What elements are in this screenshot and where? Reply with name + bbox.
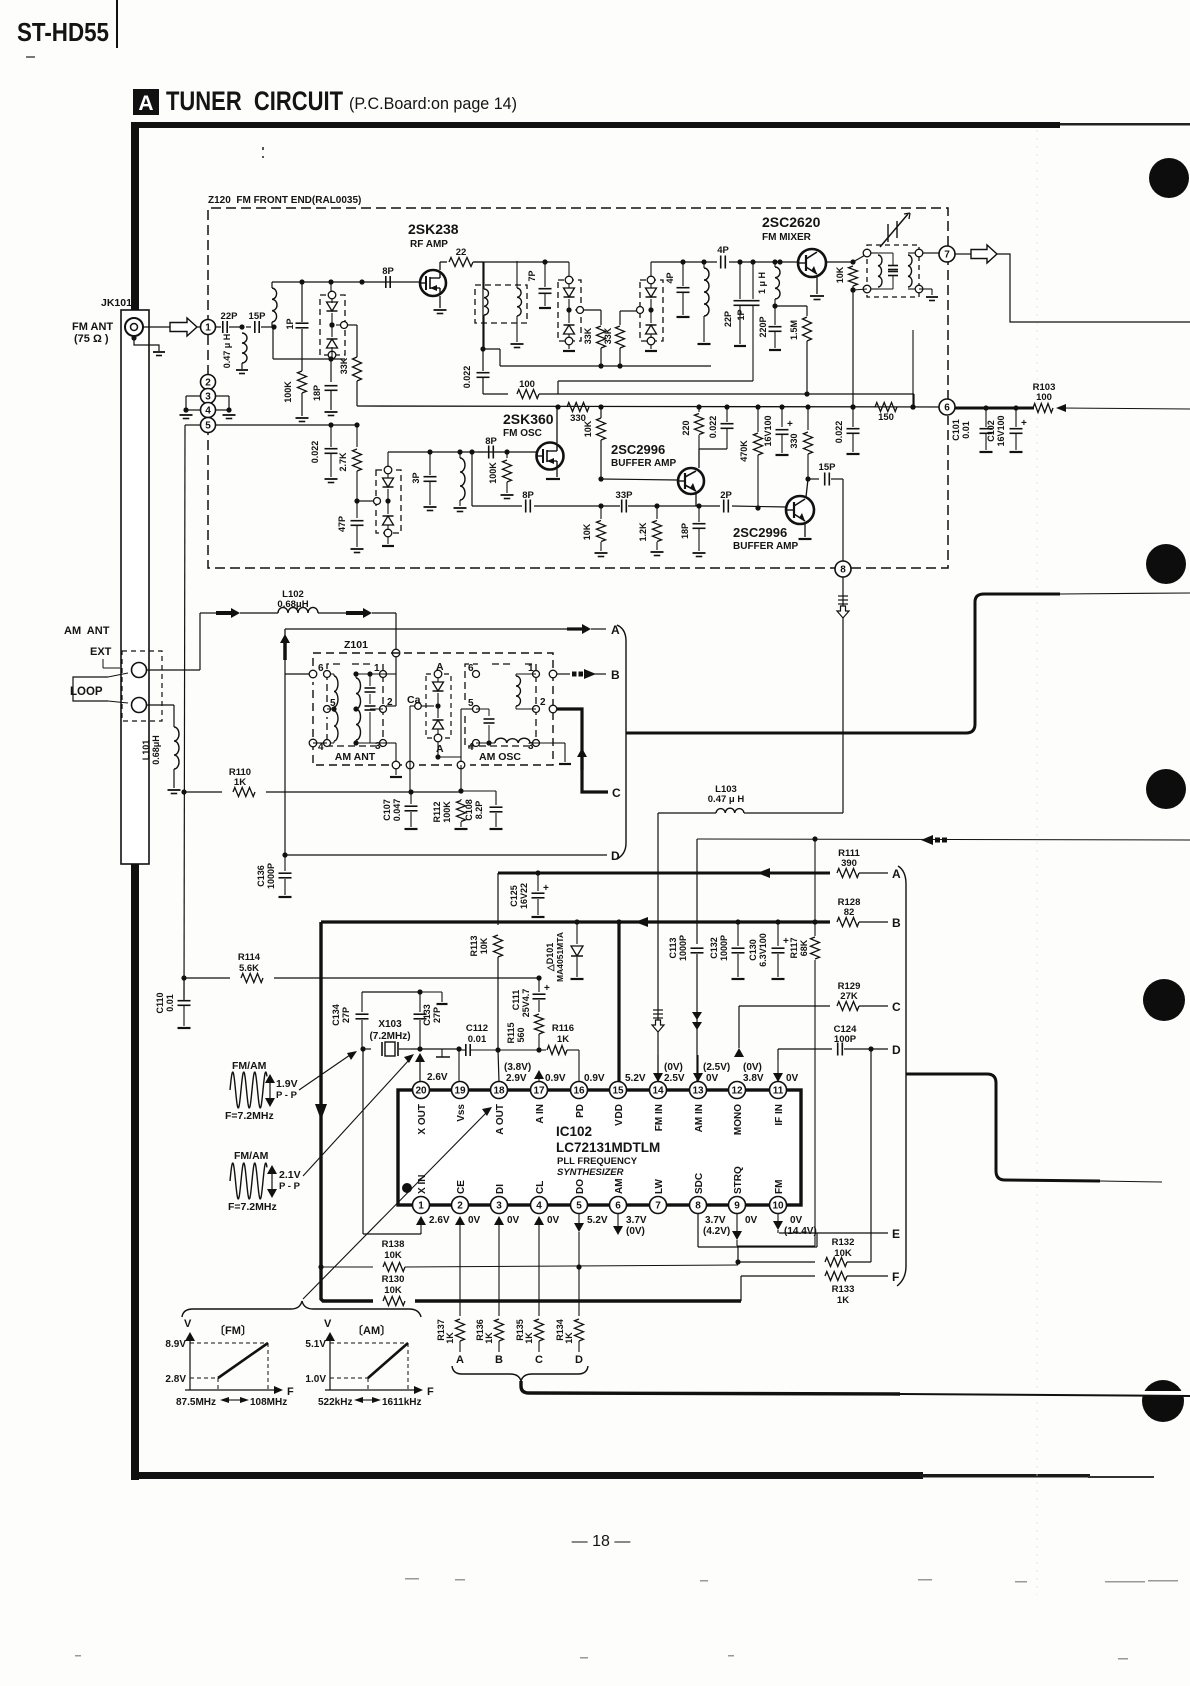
svg-text:FM MIXER: FM MIXER [762, 232, 812, 243]
crystal X103 [360, 1046, 365, 1051]
svg-text:F=7.2MHz: F=7.2MHz [225, 1110, 274, 1122]
svg-text:B: B [495, 1354, 503, 1366]
svg-text:F: F [287, 1386, 294, 1398]
varactor2 dashed box [558, 280, 581, 341]
svg-text:R117: R117 [789, 937, 799, 958]
resistor 470K [755, 404, 760, 409]
wire VDD thick [616, 919, 621, 924]
svg-text:1.5M: 1.5M [789, 320, 799, 340]
capacitor C113 1000P [691, 947, 704, 949]
varactor osc dashed box [376, 470, 401, 533]
capacitor 15P out [808, 478, 819, 480]
binding hole 5 [1142, 1380, 1184, 1422]
pin1 voltage [420, 1224, 422, 1232]
varactor tank1 tap [329, 322, 334, 327]
wire top tank2 [474, 261, 569, 263]
resistor R115 560 [535, 1014, 544, 1034]
ABCD brace [452, 1366, 588, 1381]
svg-text:L101: L101 [141, 740, 151, 761]
capacitor 2P [723, 500, 725, 513]
pin10 stub [777, 1213, 779, 1222]
svg-text:1 μ H: 1 μ H [757, 272, 767, 294]
wire AM line [697, 839, 1190, 840]
svg-text:0V: 0V [790, 1215, 803, 1226]
terminal 3 circle [201, 389, 216, 404]
svg-text:10: 10 [772, 1200, 784, 1211]
capacitor 8P line [525, 500, 527, 513]
capacitor 0.022 pin5 [328, 422, 333, 427]
wire AM OSC pin5 [460, 709, 462, 761]
transistor 2SK360 [537, 443, 564, 470]
svg-text:8P: 8P [485, 436, 497, 447]
wire 7 to right edge [997, 254, 1190, 322]
pin17 voltage [538, 1078, 540, 1082]
svg-text:4P: 4P [717, 245, 729, 256]
svg-text:15P: 15P [819, 462, 837, 473]
hatch arrow terminal8 [838, 595, 848, 597]
svg-text:+: + [543, 883, 549, 894]
wire R130 to F [740, 1276, 742, 1301]
svg-text:LW: LW [654, 1178, 665, 1194]
resistor R111 390 [830, 871, 890, 876]
LOOP bracket [73, 677, 108, 701]
A line arrow [567, 627, 583, 630]
wire 33Kb to varactor3 [620, 310, 636, 312]
svg-text:F: F [892, 1270, 899, 1284]
svg-text:10K: 10K [479, 937, 489, 954]
svg-text:108MHz: 108MHz [250, 1397, 287, 1408]
AM ANT pin circles [309, 670, 317, 678]
bus y394 corner to VT [804, 391, 809, 396]
svg-text:(0V): (0V) [626, 1226, 645, 1237]
wire jack to L102 [146, 669, 200, 671]
ground under 0.47uH [241, 363, 243, 369]
signal block arrow into pin1 [170, 318, 197, 336]
svg-text:33K: 33K [339, 357, 349, 374]
osc tank coil [457, 449, 462, 454]
capacitor C107 0.047 [408, 789, 413, 794]
svg-text:1000P: 1000P [678, 935, 688, 961]
svg-text:BUFFER AMP: BUFFER AMP [611, 458, 677, 469]
svg-text:MA4051MTA: MA4051MTA [555, 932, 565, 982]
svg-text:Z120 FM FRONT END(RAL0035): Z120 FM FRONT END(RAL0035) [208, 195, 361, 206]
waveform2 pp arrow [271, 1173, 273, 1181]
IC102 body [398, 1090, 801, 1205]
AM OSC windings [516, 676, 521, 706]
svg-text:C113: C113 [668, 937, 678, 958]
svg-text:20: 20 [415, 1085, 427, 1096]
transistor 2SC2620 [777, 259, 782, 264]
svg-text:R132: R132 [832, 1237, 855, 1248]
svg-text:25V4.7: 25V4.7 [521, 989, 531, 1018]
resistor R112 100K [457, 801, 466, 822]
resistor R114 5.6K [181, 975, 186, 980]
svg-text:V DD: V DD [614, 1104, 625, 1126]
ground left of terminals 3-4 [180, 414, 193, 416]
svg-text:A: A [436, 743, 444, 755]
svg-text:16V100: 16V100 [996, 415, 1006, 446]
wire line D pll [778, 1048, 832, 1050]
svg-text:8: 8 [840, 564, 846, 575]
wire left column x185 [184, 425, 185, 1001]
svg-text:150: 150 [878, 412, 894, 423]
capacitor C112 0.01 [465, 1044, 467, 1056]
svg-text:15: 15 [612, 1085, 624, 1096]
svg-text:FM OSC: FM OSC [503, 428, 542, 439]
terminal 4 circle [201, 403, 216, 418]
pin13 voltage [697, 1055, 699, 1074]
terminal 3-4 left wires [186, 395, 200, 397]
svg-text:EXT: EXT [90, 646, 112, 658]
svg-text:1K: 1K [484, 1332, 494, 1344]
AM bundle bracket [617, 625, 626, 859]
svg-text:0.47 μ H: 0.47 μ H [222, 334, 232, 369]
svg-text:(0V): (0V) [743, 1062, 762, 1073]
inductor L103 [658, 812, 716, 814]
svg-text:PLL FREQUENCY: PLL FREQUENCY [557, 1156, 638, 1167]
2SK238 drain wire [439, 262, 441, 270]
svg-text:1000P: 1000P [719, 935, 729, 961]
AM jack circle 1 [132, 663, 147, 678]
tank2 coil right [516, 261, 518, 288]
svg-text:5.2V: 5.2V [625, 1073, 646, 1084]
wire R132 stub [737, 1247, 739, 1262]
svg-text:R130: R130 [382, 1274, 405, 1285]
svg-text:C101: C101 [951, 419, 961, 441]
capacitor 18P buf [696, 503, 701, 508]
svg-text:5.6K: 5.6K [239, 963, 259, 974]
resistor 10K buf1 lower [598, 503, 603, 508]
svg-text:33K: 33K [603, 327, 613, 344]
AM graph F axis [325, 1389, 415, 1391]
node after 22P [239, 324, 244, 329]
capacitor 22P mixer [737, 259, 742, 264]
wire line C pll [739, 1005, 888, 1007]
svg-text:27P: 27P [432, 1007, 442, 1023]
svg-text:10K: 10K [384, 1285, 402, 1296]
IC102 pin1 mark [402, 1183, 412, 1193]
svg-text:F: F [427, 1386, 434, 1398]
AM OSC pin circles [473, 671, 480, 678]
connector JK101 body [121, 310, 149, 864]
svg-text:7P: 7P [527, 270, 537, 281]
svg-text:C133: C133 [422, 1004, 432, 1026]
resistor 100 [483, 393, 508, 395]
svg-text:CL: CL [535, 1181, 546, 1194]
ABCD bundle exit [521, 1381, 900, 1394]
section header A box [133, 89, 159, 115]
ground Z101 pin [395, 769, 397, 775]
svg-text:AM ANT: AM ANT [335, 751, 376, 763]
AM graph dashes [330, 1342, 408, 1344]
varactor2 diodes [568, 262, 570, 280]
capacitor 8P rf gate [385, 276, 387, 288]
C line arrow [580, 756, 583, 770]
pin11 voltage [777, 1049, 779, 1074]
svg-text:C136: C136 [256, 865, 266, 887]
svg-text:1K: 1K [564, 1332, 574, 1344]
svg-text:A: A [892, 867, 901, 881]
pin16 voltage [578, 1050, 580, 1082]
svg-text:(75 Ω ): (75 Ω ) [74, 333, 109, 345]
capacitor 3P [427, 449, 432, 454]
svg-text:C111: C111 [511, 990, 521, 1011]
svg-text:FM/AM: FM/AM [234, 1150, 269, 1162]
trimmer adjust symbol [887, 224, 889, 242]
waveform2 sine [230, 1163, 267, 1199]
svg-text:JK101: JK101 [101, 297, 132, 309]
svg-text:6: 6 [944, 402, 950, 413]
svg-text:522kHz: 522kHz [318, 1397, 352, 1408]
wire mixer secondary junction [850, 287, 855, 292]
IC102 top pins [413, 1082, 430, 1099]
svg-text:27P: 27P [341, 1007, 351, 1023]
svg-text:6.3V100: 6.3V100 [758, 933, 768, 967]
svg-text:(14.4V): (14.4V) [784, 1226, 817, 1237]
inductor 0.47uH [242, 333, 247, 363]
svg-text:2.5V: 2.5V [664, 1073, 685, 1084]
svg-text:0V: 0V [786, 1073, 799, 1084]
svg-text:17: 17 [533, 1085, 545, 1096]
svg-text:F=7.2MHz: F=7.2MHz [228, 1201, 277, 1213]
svg-text:— 18 —: — 18 — [572, 1533, 631, 1550]
svg-text:4: 4 [205, 405, 211, 416]
svg-text:2: 2 [387, 697, 393, 708]
capacitor C124 100P [837, 1043, 839, 1056]
Z101 dashed box [313, 653, 553, 765]
svg-text:13: 13 [692, 1085, 704, 1096]
svg-text:390: 390 [841, 858, 857, 869]
svg-text:7: 7 [944, 249, 950, 260]
svg-text:7: 7 [655, 1200, 661, 1211]
wire 10K to VT line [852, 290, 854, 407]
resistor 100K tank1 [301, 359, 303, 371]
crystal top wire [362, 991, 420, 993]
svg-text:33K: 33K [583, 327, 593, 344]
resistor 22 [449, 258, 473, 267]
svg-text:0.047: 0.047 [392, 799, 402, 822]
svg-text:V: V [184, 1318, 192, 1330]
svg-text:C: C [612, 786, 621, 800]
capacitor 8P osc gate [469, 449, 474, 454]
ground right of terminals 3-4 [223, 414, 236, 416]
wire X OUT stub [419, 1061, 421, 1082]
terminal 2 circle [201, 375, 216, 390]
resistor R137 1K [456, 1319, 465, 1341]
svg-text:1.9V: 1.9V [276, 1078, 298, 1090]
mixer collector wire [826, 261, 853, 263]
svg-text:5: 5 [576, 1200, 582, 1211]
svg-text:DO: DO [575, 1179, 586, 1194]
svg-text:87.5MHz: 87.5MHz [176, 1397, 216, 1408]
capacitor 7P [542, 259, 547, 264]
svg-text:IF IN: IF IN [774, 1104, 785, 1126]
inductor 1uH [772, 259, 777, 264]
svg-text:C132: C132 [709, 937, 719, 959]
svg-text:FM ANT: FM ANT [72, 321, 113, 333]
svg-text:8P: 8P [522, 490, 534, 501]
frame left border lower [131, 862, 139, 1480]
VT bus line [357, 406, 948, 407]
frame bottom border [133, 1472, 923, 1479]
svg-text:16V22: 16V22 [519, 883, 529, 909]
svg-text:0V: 0V [468, 1215, 481, 1226]
AM jack circle 2 [132, 698, 147, 713]
B line left arrow [635, 917, 648, 927]
svg-text:MONO: MONO [733, 1104, 744, 1135]
resistor R128 82 [830, 920, 890, 925]
mixer stage top wire [651, 261, 717, 263]
svg-text:D: D [611, 849, 620, 863]
svg-text:220: 220 [681, 420, 691, 435]
svg-text:(7.2MHz): (7.2MHz) [369, 1031, 410, 1042]
wire AM OSC pin4 stub [475, 743, 477, 746]
output block arrow after 7 [955, 253, 971, 255]
svg-text:16: 16 [573, 1085, 585, 1096]
svg-text:P - P: P - P [279, 1181, 301, 1192]
wire terminal8 down [842, 577, 844, 813]
svg-text:8: 8 [695, 1200, 701, 1211]
AM bundle exit line [626, 594, 1060, 733]
capacitor C132 1000P [735, 919, 740, 924]
frame top border [133, 122, 1060, 128]
svg-text:P - P: P - P [276, 1090, 298, 1101]
pin4 wire down [538, 1224, 540, 1240]
capacitor 22P [215, 326, 221, 328]
svg-text:1P: 1P [736, 309, 746, 320]
svg-text:X OUT: X OUT [417, 1104, 428, 1135]
capacitor 33P [621, 500, 623, 513]
svg-text:C110: C110 [155, 992, 165, 1013]
A line left arrow [757, 868, 770, 878]
svg-text:1.2K: 1.2K [638, 522, 648, 542]
resistor 33K b [619, 311, 621, 325]
bus y366 [500, 365, 711, 367]
svg-text:C102: C102 [986, 420, 996, 442]
pin5 wire [185, 424, 200, 426]
svg-text:330: 330 [789, 433, 799, 448]
AM ANT sub-box [327, 664, 383, 746]
svg-text:DI: DI [495, 1184, 506, 1194]
varactor2 tap [577, 307, 584, 314]
resistor R116 1K [541, 1049, 546, 1051]
svg-text:5.2V: 5.2V [587, 1215, 608, 1226]
svg-text:RF AMP: RF AMP [410, 239, 448, 250]
wire C line thick [557, 709, 608, 792]
svg-text:0.022: 0.022 [834, 421, 844, 444]
AM ANT windings [331, 673, 334, 675]
wire line B [321, 920, 888, 923]
capacitor 1P tank1 [301, 282, 303, 322]
PLL bundle bracket [897, 866, 906, 1286]
cut mark dashes bottom [405, 1578, 419, 1580]
svg-text:1K: 1K [524, 1332, 534, 1344]
capacitor C130 6.3V100 [775, 919, 780, 924]
capacitor 15P [246, 326, 251, 328]
svg-text:82: 82 [844, 907, 855, 918]
binding hole 2 [1146, 544, 1186, 584]
svg-text:5: 5 [205, 420, 211, 431]
node after 15P [271, 324, 276, 329]
svg-text:2.9V: 2.9V [506, 1073, 527, 1084]
svg-text:1K: 1K [837, 1295, 849, 1306]
svg-text:PD: PD [575, 1104, 586, 1118]
resistor 33K a [600, 310, 602, 325]
wire 22 down to 0.022 [482, 262, 484, 349]
resistor R135 1K [535, 1319, 544, 1341]
svg-text:(2.5V): (2.5V) [703, 1062, 730, 1073]
varactor diodes tank1 [328, 291, 336, 299]
svg-text:0.022: 0.022 [708, 416, 718, 439]
capacitor C108 8.2P [461, 790, 496, 792]
wire line A [498, 872, 888, 875]
svg-text:2SC2996: 2SC2996 [611, 442, 665, 457]
pin6 stub [617, 1213, 619, 1227]
svg-text:18P: 18P [312, 385, 322, 401]
capacitor 47P [354, 498, 359, 503]
svg-text:100K: 100K [283, 381, 293, 403]
svg-text:AM IN: AM IN [694, 1104, 705, 1132]
resistor R129 27K [830, 1004, 890, 1009]
pin18 A OUT stub [498, 1078, 500, 1082]
resistor 10K buf1 upper [600, 407, 602, 418]
svg-text:1: 1 [418, 1200, 424, 1211]
svg-text:100: 100 [1036, 392, 1052, 403]
svg-text:LC72131MDTLM: LC72131MDTLM [556, 1140, 660, 1155]
buffer1 base wire [601, 479, 677, 480]
svg-text:18P: 18P [680, 523, 690, 539]
wire pin6 output [955, 407, 1034, 410]
buffer2 collector [806, 479, 808, 497]
osc output line y506 [472, 505, 522, 507]
svg-text:6: 6 [318, 663, 324, 674]
svg-text:C: C [892, 1000, 901, 1014]
varactor Ca dashed box [426, 674, 451, 738]
resistor R117 68K [812, 836, 817, 841]
svg-text:8P: 8P [382, 266, 394, 277]
svg-text:R133: R133 [832, 1284, 855, 1295]
tank1 vertical to bottom [272, 327, 274, 359]
svg-text:22: 22 [456, 247, 467, 258]
svg-text:560: 560 [516, 1027, 526, 1042]
2SK238 source ground [439, 296, 441, 308]
terminal 1 circle [201, 320, 216, 335]
capacitor C101 0.01 [985, 408, 987, 427]
capacitor C102 16V100 [1015, 408, 1017, 427]
svg-text:LOOP: LOOP [70, 686, 103, 698]
wire FM ANT to pin1 [143, 326, 170, 328]
2SK360 source ground [556, 469, 558, 477]
resistor R133 1K [741, 1275, 815, 1277]
AM line arrow [921, 835, 933, 845]
svg-text:R112: R112 [432, 801, 442, 822]
svg-text:1000P: 1000P [266, 863, 276, 889]
svg-text:C134: C134 [331, 1004, 341, 1026]
resistor 330 osc [555, 404, 560, 409]
svg-text:19: 19 [454, 1085, 466, 1096]
capacitor 16V100 [779, 404, 784, 409]
svg-text:2SK360: 2SK360 [503, 411, 554, 427]
svg-text:10K: 10K [834, 1248, 852, 1259]
buffer1 emitter [695, 493, 697, 506]
AM jack dashed box [122, 651, 162, 721]
svg-text:A: A [138, 92, 153, 115]
svg-text:10K: 10K [835, 266, 845, 283]
svg-text:R113: R113 [469, 935, 479, 956]
svg-text:AM: AM [614, 1178, 625, 1194]
svg-text:C130: C130 [748, 939, 758, 961]
svg-text:(3.8V): (3.8V) [504, 1062, 531, 1073]
